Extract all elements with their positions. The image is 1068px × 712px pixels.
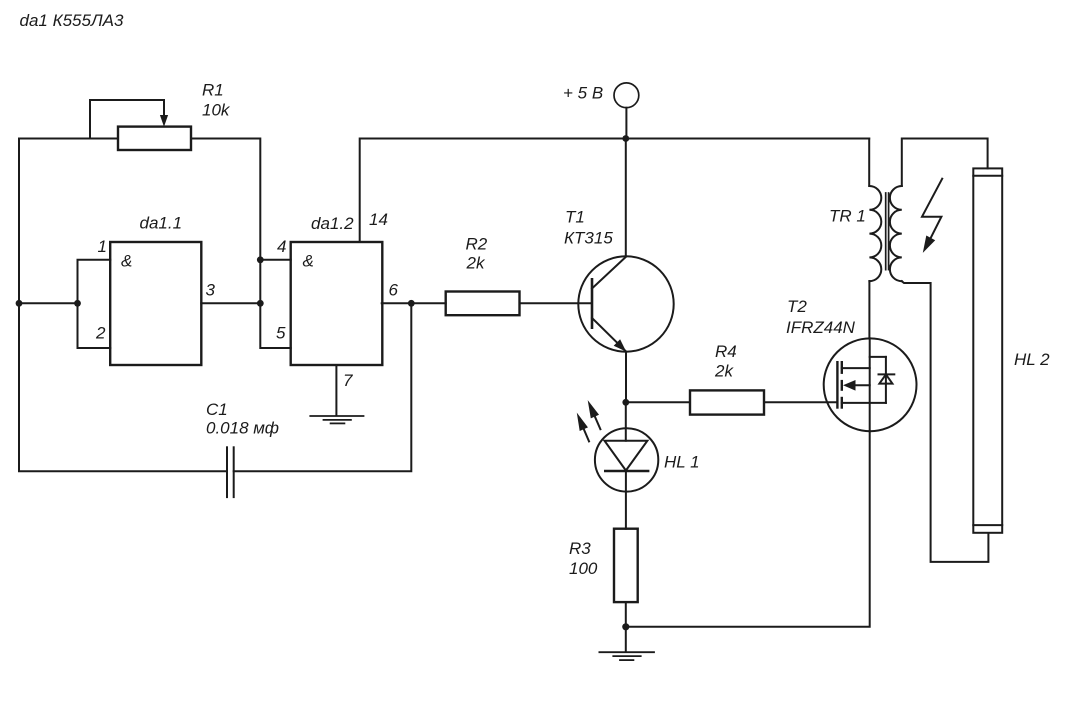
wire: R4 to gate: [764, 401, 837, 403]
transformer TR1 secondary winding: [890, 186, 902, 281]
transformer TR1 core: [886, 193, 889, 270]
T2 body diode triangle: [879, 374, 892, 383]
wire: +5V terminal lead: [625, 108, 627, 139]
svg-text:R2: R2: [466, 235, 488, 254]
wire: R2 to T1 base: [520, 302, 593, 304]
wire: collector to +5V rail: [625, 139, 627, 257]
T2 gate bar: [836, 362, 838, 407]
T2 channel dashes: [841, 362, 843, 407]
svg-text:da1.2: da1.2: [311, 214, 354, 233]
capacitor C1: [227, 447, 234, 497]
svg-text:da1.1: da1.1: [140, 214, 183, 233]
svg-text:&: &: [121, 252, 132, 271]
T2 drain tab: [842, 367, 870, 369]
wire: pin 7 to ground: [335, 365, 337, 415]
svg-text:&: &: [303, 252, 314, 271]
svg-text:4: 4: [277, 237, 286, 256]
T2 source tab: [842, 402, 886, 404]
svg-text:5: 5: [276, 324, 286, 343]
svg-text:HL 1: HL 1: [664, 453, 700, 472]
T1 collector diagonal: [592, 257, 626, 289]
gate da1.2: [291, 242, 383, 365]
svg-text:IFRZ44N: IFRZ44N: [786, 318, 856, 337]
T2 body diode top link: [870, 356, 886, 358]
svg-text:T1: T1: [565, 208, 585, 227]
transistor T2 circle: [824, 338, 917, 431]
svg-text:КТ315: КТ315: [564, 229, 613, 248]
gate da1.1: [110, 242, 201, 365]
lamp HL2 top electrode line: [973, 175, 1002, 177]
node: junction feedback: [408, 300, 415, 307]
svg-text:1: 1: [98, 237, 107, 256]
wire: node into LED anode: [625, 402, 627, 440]
wire: source return wire: [626, 431, 870, 627]
svg-text:C1: C1: [206, 400, 228, 419]
T2 substrate arrowhead: [843, 380, 856, 391]
svg-text:14: 14: [369, 210, 388, 229]
transformer TR1 primary winding: [869, 186, 881, 281]
R1 wiper arrowhead: [160, 115, 168, 127]
svg-text:6: 6: [389, 281, 399, 300]
resistor R1: [118, 127, 191, 150]
node: +5V junction: [622, 135, 629, 142]
wire: R3 to ground node: [625, 602, 627, 627]
wire: feedback down to C1 wire: [234, 303, 412, 471]
wire: primary top riser: [868, 139, 870, 187]
LED triangle: [605, 441, 648, 471]
wire: left rail and bottom wire to C1: [19, 139, 227, 472]
ground under da1.2: [310, 416, 363, 423]
svg-text:7: 7: [343, 371, 353, 390]
wire: ground node stem: [625, 627, 627, 652]
wire: da1.1 output 3: [201, 302, 260, 304]
LED HL1 circle: [595, 428, 658, 491]
svg-text:2k: 2k: [714, 362, 734, 381]
wire: secondary bottom to lamp bottom: [902, 281, 989, 562]
T1 emitter diagonal: [592, 318, 626, 352]
T1 emitter arrowhead: [614, 339, 627, 351]
svg-text:0.018 мф: 0.018 мф: [206, 419, 279, 438]
svg-text:100: 100: [569, 559, 598, 578]
T2 substrate arrow shaft: [853, 384, 870, 386]
wire: pin 14 riser and top rail: [360, 139, 870, 243]
svg-text:R3: R3: [569, 539, 591, 558]
svg-text:R1: R1: [202, 81, 224, 100]
wire: R1 wiper loop: [90, 100, 164, 139]
svg-text:da1 К555ЛА3: da1 К555ЛА3: [20, 11, 124, 30]
LED emission arrow 2: [588, 400, 601, 429]
wire: secondary top riser and rail to lamp: [902, 139, 988, 187]
svg-text:HL 2: HL 2: [1014, 350, 1050, 369]
power +5V terminal circle: [614, 83, 639, 108]
node: ground junction: [622, 623, 629, 630]
resistor R4: [690, 390, 764, 414]
wire: left rail to inputs: [19, 302, 78, 304]
wire: output 6 to R2: [382, 302, 446, 304]
lamp HL2 tube: [973, 168, 1002, 532]
wire: stub to pin 4: [260, 259, 290, 261]
lamp HL2 bottom electrode line: [973, 524, 1002, 526]
node: junction at output 3: [257, 300, 264, 307]
svg-text:10k: 10k: [202, 101, 231, 120]
resistor R3: [614, 529, 638, 602]
resistor R2: [446, 292, 520, 316]
svg-text:TR 1: TR 1: [829, 207, 866, 226]
wire: LED cathode to R3: [625, 471, 627, 529]
wire: emitter down to LED node: [625, 352, 627, 403]
T2 body diode cathode bar: [879, 373, 895, 375]
wire: T2 internal vertical: [869, 338, 871, 431]
svg-text:2: 2: [95, 324, 106, 343]
node: emitter/R4/LED junction: [622, 399, 629, 406]
high voltage lightning arrow: [922, 179, 942, 253]
wire: R1 right to da1.2 inputs: [191, 139, 291, 349]
LED cathode bar: [605, 470, 648, 472]
svg-text:R4: R4: [715, 342, 737, 361]
node: junction on left rail: [16, 300, 23, 307]
node: junction on input tie: [74, 300, 81, 307]
node: junction at pin4 column: [257, 256, 264, 263]
wire: node to R4: [626, 401, 690, 403]
transistor T1 circle: [578, 256, 673, 351]
svg-text:+ 5 В: + 5 В: [563, 84, 603, 103]
LED emission arrow 1: [577, 413, 589, 442]
wire: drain riser to transformer: [868, 281, 870, 338]
svg-text:3: 3: [206, 281, 216, 300]
svg-text:2k: 2k: [466, 254, 486, 273]
ground at bottom: [599, 652, 654, 660]
wire: da1.1 inputs tie: [78, 260, 111, 348]
svg-text:T2: T2: [787, 297, 807, 316]
T2 body diode vertical: [885, 357, 887, 403]
T1 base bar: [591, 279, 594, 327]
